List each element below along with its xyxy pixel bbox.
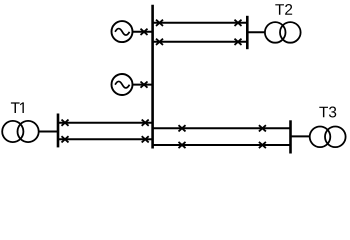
wire G2 to busbar [132, 84, 152, 86]
switch on G2 lead [141, 82, 148, 88]
label T2 [275, 4, 292, 15]
label T3 [319, 107, 336, 118]
generator G2 [112, 74, 133, 95]
wire T3 line 2 busbar to T3 bar [153, 144, 291, 146]
transformer T3 [310, 127, 346, 148]
switch T1 line1 left [62, 120, 69, 126]
transformer T2 [265, 22, 301, 43]
bar at T2 [246, 16, 249, 49]
bar at T1 [57, 114, 60, 148]
wire T2 bar to transformer [247, 31, 265, 33]
switch feeder A right [235, 20, 242, 26]
switch T1 line2 left [62, 136, 69, 142]
busbar B1 [151, 5, 154, 149]
generator G1 [112, 21, 133, 42]
wire T3 line 1 busbar to T3 bar [153, 127, 291, 129]
wire feeder B busbar to T2 bar [153, 41, 248, 43]
switch on G1 lead [141, 29, 148, 35]
wire G1 to busbar [132, 31, 152, 33]
wire T1 to bar [38, 131, 58, 133]
wire T1 line 2 to busbar [58, 138, 153, 140]
bar at T3 [289, 120, 292, 153]
switch T1 line2 right [142, 136, 149, 142]
switch T3 line2 left [179, 142, 186, 148]
switch T3 line2 right [259, 142, 266, 148]
switch T3 line1 right [259, 125, 266, 131]
switch T1 line1 right [142, 120, 149, 126]
switch feeder B left [156, 39, 163, 45]
wire T3 bar to transformer [291, 135, 311, 137]
transformer T1 [2, 121, 39, 142]
wire T1 line 1 to busbar [58, 122, 153, 124]
switch T3 line1 left [179, 125, 186, 131]
switch feeder B right [235, 39, 242, 45]
label T1 [11, 102, 24, 113]
switch feeder A left [156, 20, 163, 26]
wire feeder A busbar to T2 bar [153, 22, 248, 24]
